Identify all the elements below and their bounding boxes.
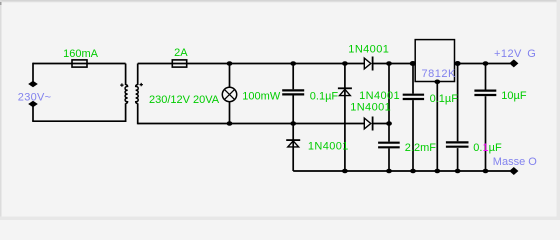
wire: secondary bottom vertical [137,103,139,124]
wire: lamp top lead [229,64,231,88]
junction dots middle rail [227,121,392,126]
transformer polarity mark + primary [120,83,123,86]
lamp LA1 [222,87,236,101]
fuse F1 160mA [72,60,87,67]
wire: C3 vertical [412,64,414,94]
svg-text:0.1µF: 0.1µF [430,93,459,105]
svg-text:160mA: 160mA [63,48,99,60]
wire: +V vertical with C2 [388,64,390,142]
junction dots ground rail [342,169,488,174]
wire: regulator ground pin [436,82,438,172]
diode D2 1N4001 middle [364,117,372,131]
svg-text:2.2mF: 2.2mF [405,142,436,154]
wire: secondary top vertical [137,64,139,86]
svg-text:7812K: 7812K [422,68,456,80]
wire: middle rail secondary bottom to diode D2 [138,123,365,125]
wire: primary top vertical [125,64,127,86]
svg-text:100mW: 100mW [242,91,281,103]
wire: C1 top lead [292,64,294,90]
wire: mains left vertical lower [32,107,34,122]
svg-text:10µF: 10µF [501,90,527,102]
svg-text:+12V: +12V [494,48,522,60]
capacitor C2 2.2mF plates [378,143,400,148]
wire: top rail regulator output to +12V terminal [455,63,511,65]
transformer polarity mark + secondary [140,83,143,86]
wire: top rail diode D1 cathode to regulator [373,63,416,65]
svg-text:230V~: 230V~ [18,91,52,103]
wire: D4 leads top rail to ground rail [344,64,346,172]
svg-text:Masse O: Masse O [493,156,537,168]
capacitor C5 10uF plates [474,91,496,95]
wire: C4 vertical [457,64,459,142]
svg-text:2A: 2A [174,47,188,59]
terminal 230V upper [28,81,38,88]
svg-text:1N4001: 1N4001 [348,44,389,56]
svg-text:1N4001: 1N4001 [350,102,391,114]
wire: mains left vertical upper [32,63,34,82]
svg-text:1N4001: 1N4001 [308,140,349,152]
wire: primary loop bottom [32,120,125,122]
wire: middle rail diode D2 cathode to +V node [373,123,389,125]
fuse F2 2A [172,60,186,67]
junction dot regulator ground pin [434,80,440,85]
wire: C1 bottom lead [292,96,294,124]
junction dots top rail [227,61,489,66]
terminal 230V lower [28,101,38,108]
wire: C5 vertical [485,64,487,90]
diode D4 1N4001 (vertical, pointing up) [338,88,352,95]
wire: D3 leads middle rail to ground rail [292,124,294,172]
svg-text:230/12V 20VA: 230/12V 20VA [149,94,220,106]
svg-text:1N4001: 1N4001 [359,90,400,102]
diode D3 1N4001 lower left (vertical, pointing up) [286,140,300,147]
svg-text:0.1µF: 0.1µF [473,142,502,154]
capacitor C4 0.1uF plates [446,142,469,146]
capacitor C1 0.1uF plates [282,90,304,94]
wire: primary bottom vertical [125,103,127,122]
terminal Masse [509,167,518,175]
terminal +12V [509,59,518,67]
wire: ground rail [293,170,510,172]
capacitor C3 0.1uF plates [403,95,424,99]
svg-text:G: G [527,48,536,60]
regulator U1 7812K box [415,40,454,82]
transformer TR1 secondary winding [136,85,139,104]
transformer TR1 primary winding [125,85,128,104]
svg-text:0.1µF: 0.1µF [310,90,339,102]
wire: mains top rail to fuse F1 [33,63,126,65]
diode D1 1N4001 top [364,57,372,71]
wire: top rail from transformer to diode D1 [138,63,365,65]
wire: lamp bottom lead [229,102,231,124]
